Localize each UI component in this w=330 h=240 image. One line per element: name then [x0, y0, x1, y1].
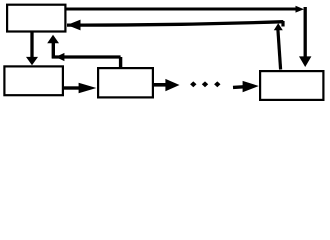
wire V2: box D top up to L2	[278, 30, 281, 70]
stub from box C top up to L3	[119, 57, 122, 68]
wire V1: top-right corner down to box D	[304, 7, 307, 58]
arrowhead L1 right	[296, 6, 305, 13]
wire V4: corner up into box A	[52, 43, 55, 59]
box C (bottom-middle)	[98, 68, 153, 97]
wire L2: right corner back to box A	[67, 22, 283, 25]
arrow A3: dots to box D shaft	[233, 85, 244, 89]
box D (bottom-right)	[260, 71, 323, 100]
arrowhead L2 left into box A	[67, 20, 81, 31]
arrowhead A2 right	[165, 79, 179, 91]
ellipsis dot 2	[202, 81, 208, 87]
box B (bottom-left)	[4, 66, 63, 95]
arrowhead V2 up	[274, 23, 283, 30]
elbow stub at L2 right end	[281, 21, 284, 27]
arrowhead V1 down into box D	[299, 56, 311, 67]
arrowhead V3 down into box B	[26, 57, 38, 65]
arrowhead A1 right into box C	[79, 83, 97, 93]
box A (top-left)	[7, 5, 65, 32]
wire V3: box A down to box B	[30, 32, 33, 57]
ellipsis dot 1	[190, 81, 196, 87]
wire L1: box A right to top-right corner	[66, 7, 296, 10]
arrowhead V4 up into box A	[47, 35, 59, 44]
arrowhead A3 right into box D	[243, 81, 259, 92]
wire L3: from box C stub leftward	[52, 55, 121, 58]
arrow A2: box C to dots shaft	[154, 83, 166, 87]
arrow A1: box B to box C shaft	[64, 86, 80, 89]
arrowhead L3 left at corner	[56, 53, 65, 61]
ellipsis dot 3	[214, 81, 220, 87]
